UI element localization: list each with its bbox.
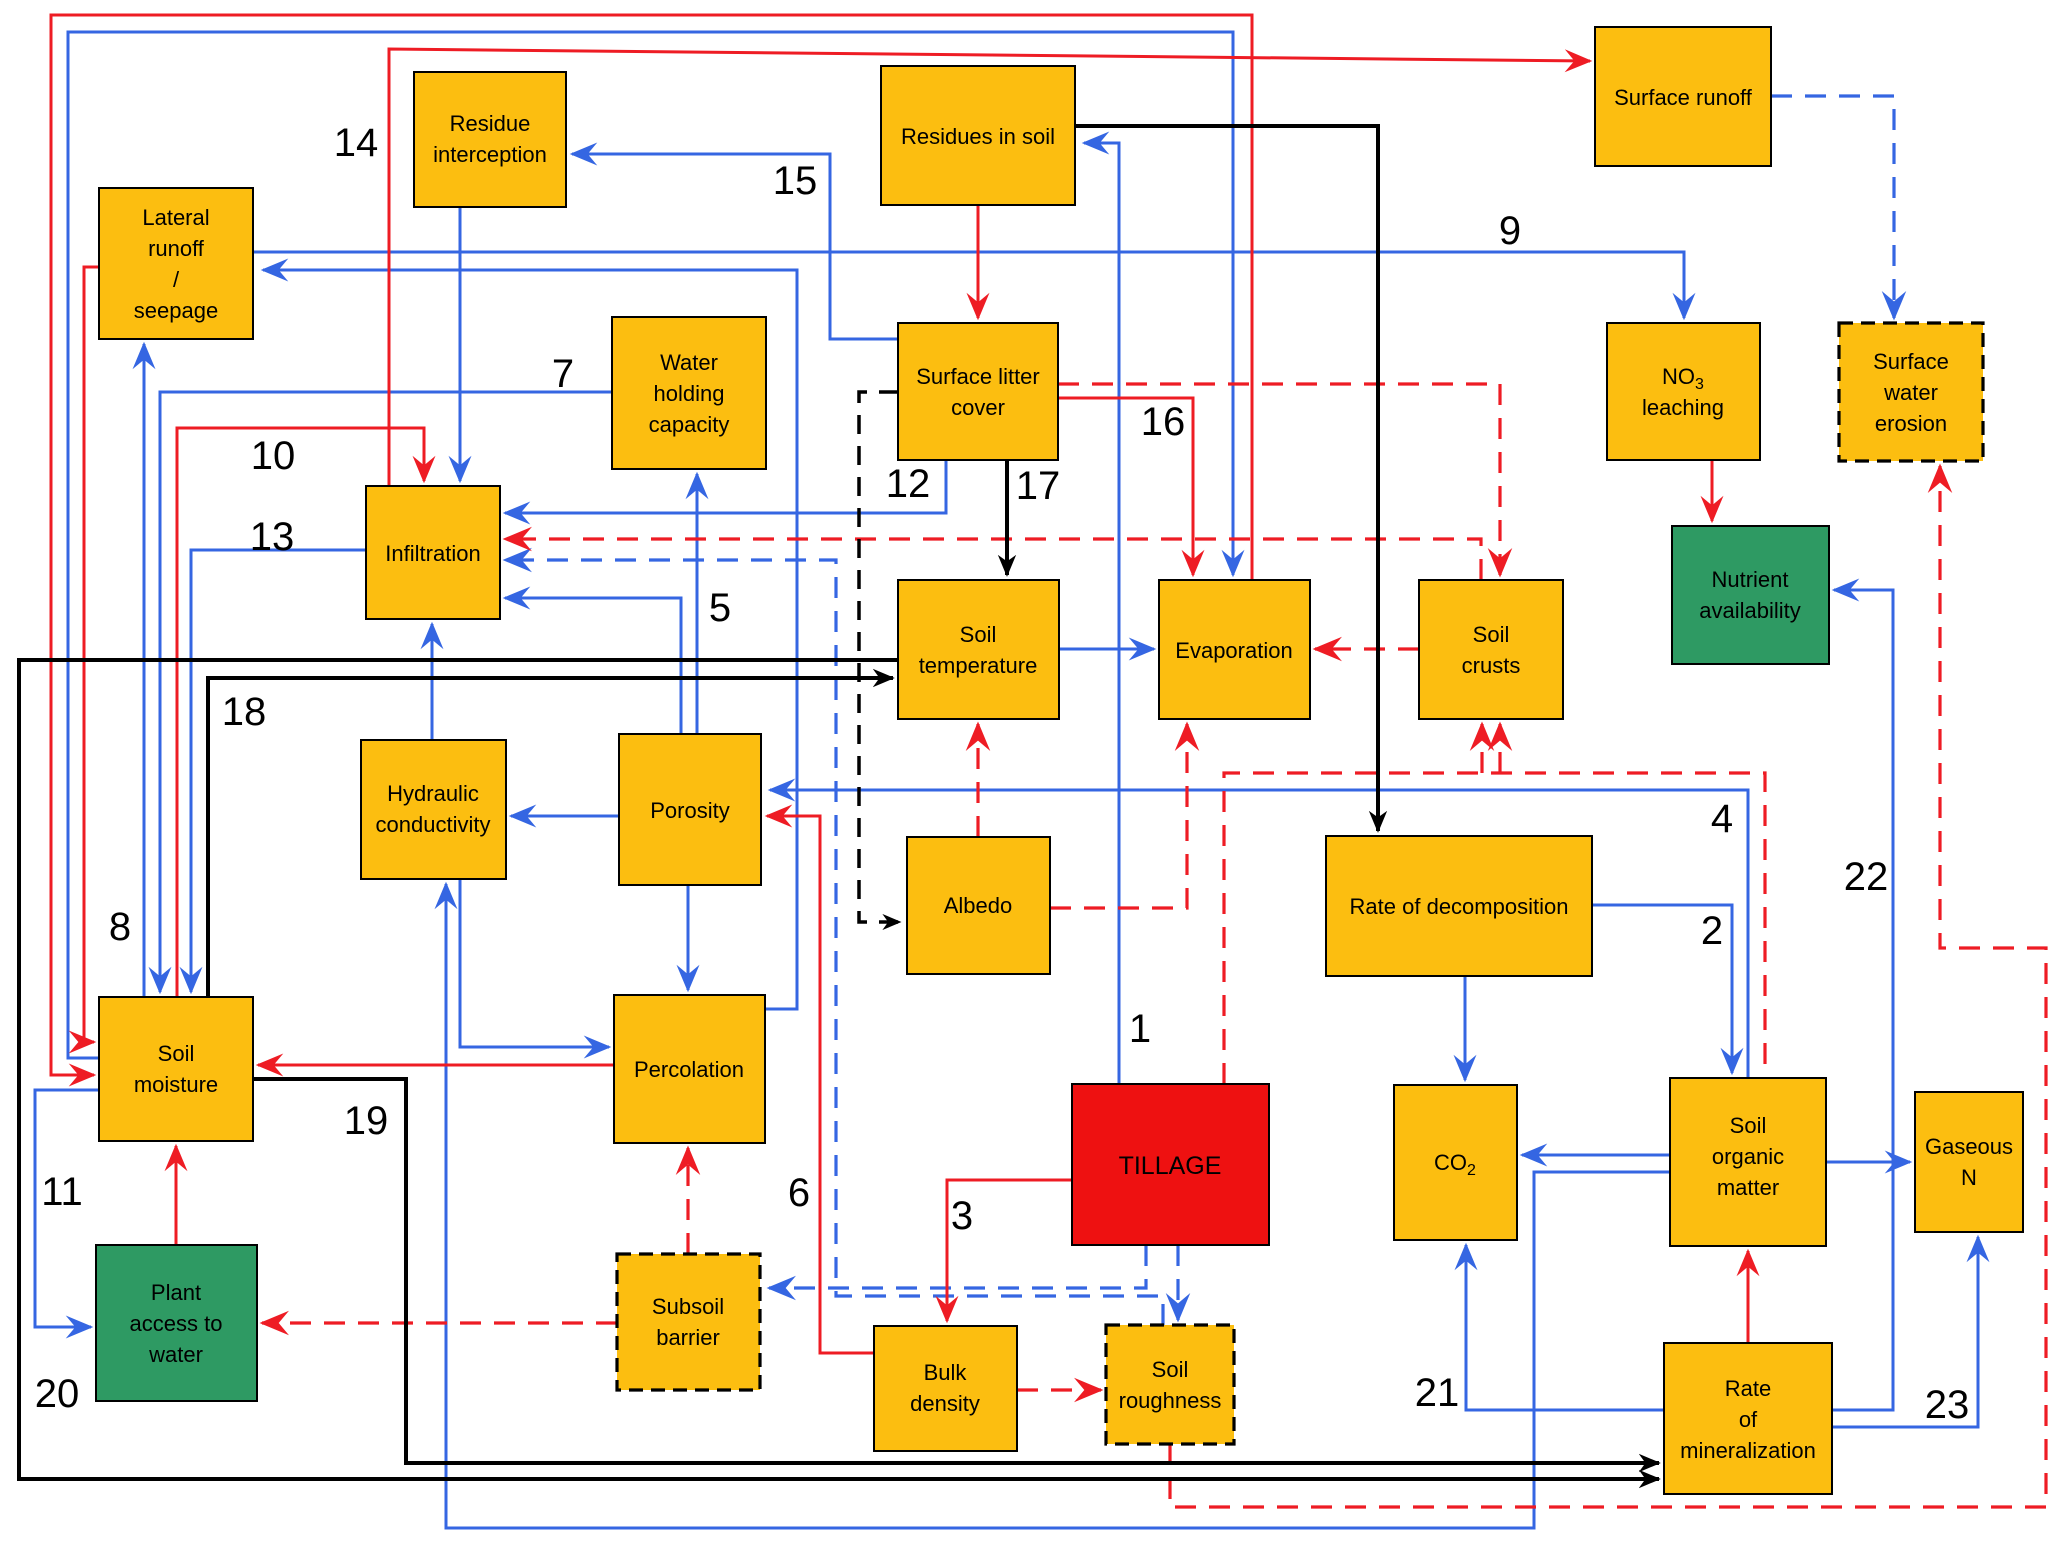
wire Lateral runoff to Soil moisture (red) [84,267,99,1042]
wire Surface runoff to Surface water erosion (blue dashed) [1771,96,1894,318]
wire 17 Surface litter cover to Soil temperature (black) [1005,460,1009,575]
wire Soil organic matter to Gaseous N (blue) [1826,1161,1910,1164]
wire Soil organic matter to CO2 (blue) [1522,1154,1670,1157]
svg-text:capacity: capacity [649,412,730,437]
wire Rate of mineralization to Soil organic matter (red) [1747,1251,1750,1343]
wire Soil roughness to Surface water erosion loop (red dashed) [1170,466,2046,1507]
wire 5 Porosity to Water holding capacity (blue) [696,474,699,734]
svg-text:14: 14 [334,121,379,165]
svg-text:19: 19 [344,1099,389,1143]
svg-text:Soil: Soil [1473,622,1510,647]
wire 4 Soil organic matter to Porosity (blue) [770,790,1748,1078]
wire NO3 leaching to Nutrient availability (red) [1711,460,1714,521]
box Surface litter cover [898,323,1058,460]
box Bulk density [874,1326,1017,1451]
svg-text:organic: organic [1712,1144,1784,1169]
box Water holding capacity [612,317,766,469]
svg-text:Hydraulic: Hydraulic [387,781,479,806]
wire Hydraulic conductivity to Infiltration (blue) [431,624,434,740]
wire 18 Soil moisture to Soil temperature (black) [208,678,893,997]
svg-text:crusts: crusts [1462,653,1521,678]
svg-text:11: 11 [41,1170,83,1214]
svg-text:12: 12 [886,462,931,506]
svg-text:7: 7 [552,352,574,396]
box Gaseous N [1915,1092,2023,1232]
svg-text:temperature: temperature [919,653,1038,678]
wire Albedo to Evaporation (red dashed) [1050,724,1187,908]
svg-text:matter: matter [1717,1175,1779,1200]
svg-text:Rate: Rate [1725,1376,1771,1401]
wire Albedo to Soil temperature (red dashed) [976,724,979,837]
wire Bulk density to Soil roughness (red dashed) [1017,1388,1101,1391]
wire TILLAGE loop to Soil organic matter (red dashed) [1224,773,1765,1084]
svg-text:5: 5 [709,586,731,630]
box Soil temperature [898,580,1059,719]
svg-text:Bulk: Bulk [924,1360,968,1385]
wire Porosity to Hydraulic conductivity (blue) [511,815,619,818]
box Soil crusts [1419,580,1563,719]
svg-text:water: water [1883,380,1938,405]
wire 16 Surface litter cover to Evaporation (red) [1058,398,1193,575]
svg-text:availability: availability [1699,598,1801,623]
svg-text:/: / [173,267,180,292]
wire Soil crusts to Infiltration (red dashed) [505,539,1481,580]
svg-text:moisture: moisture [134,1072,218,1097]
svg-text:Porosity: Porosity [650,798,729,823]
box Surface water erosion (dashed) [1839,323,1983,461]
svg-text:holding: holding [654,381,725,406]
svg-text:13: 13 [250,515,295,559]
wire 13 Infiltration to Soil moisture (blue) [191,550,366,992]
box TILLAGE (red) [1072,1084,1269,1245]
wire Hydraulic conductivity to Percolation (blue) [460,879,609,1047]
svg-text:4: 4 [1711,797,1733,841]
svg-text:21: 21 [1415,1371,1460,1415]
svg-text:Plant: Plant [151,1280,201,1305]
svg-text:Surface litter: Surface litter [916,364,1040,389]
svg-text:1: 1 [1129,1007,1151,1051]
wire Percolation to Soil moisture (red) [258,1064,614,1067]
box Residue interception [414,72,566,207]
svg-text:Water: Water [660,350,718,375]
box Percolation [614,995,765,1143]
wire 11 Soil moisture to Plant access to water (blue) [35,1090,99,1327]
box Surface runoff [1595,27,1771,166]
svg-text:23: 23 [1925,1383,1970,1427]
svg-text:10: 10 [251,434,296,478]
svg-text:Soil: Soil [1730,1113,1767,1138]
wire Residues in soil to Surface litter cover (red) [977,205,980,318]
box Soil organic matter [1670,1078,1826,1246]
svg-text:cover: cover [951,395,1005,420]
box Residues in soil [881,66,1075,205]
wire Residue interception to Infiltration (blue) [459,207,462,481]
box CO2 [1394,1085,1517,1240]
box Rate of mineralization [1664,1343,1832,1494]
svg-text:seepage: seepage [134,298,218,323]
box Albedo [907,837,1050,974]
wire 6 Bulk density to Porosity (red) [767,816,874,1353]
svg-text:6: 6 [788,1171,810,1215]
wire 19 Soil moisture to Rate of mineralization (black) [253,1079,1659,1463]
svg-text:leaching: leaching [1642,395,1724,420]
svg-text:density: density [910,1391,980,1416]
svg-text:16: 16 [1141,400,1186,444]
wire Evaporation to Soil moisture top loop (red) [51,15,1252,1075]
wire 7 Water holding capacity to Soil moisture (blue) [160,392,612,992]
svg-text:Surface: Surface [1873,349,1949,374]
wire Soil organic matter to Hydraulic conductivity bottom loop (blue) [446,884,1670,1528]
wire 20 Soil temperature to Rate of mineralization (black) [19,660,1659,1479]
wire Porosity to Infiltration (blue) [505,598,681,734]
box Evaporation [1159,580,1310,719]
box Porosity [619,734,761,885]
svg-text:Residues in soil: Residues in soil [901,124,1055,149]
box Soil moisture [99,997,253,1141]
svg-text:runoff: runoff [148,236,205,261]
box Lateral runoff / seepage [99,188,253,339]
wire TILLAGE to Subsoil barrier (blue dashed) [769,1245,1146,1288]
wire 2 Rate of decomposition to Soil organic matter (blue) [1592,905,1732,1073]
svg-text:Lateral: Lateral [142,205,209,230]
svg-text:access to: access to [130,1311,223,1336]
wire Subsoil barrier to Percolation (red dashed) [686,1148,689,1254]
svg-text:roughness: roughness [1119,1388,1222,1413]
svg-text:8: 8 [109,905,131,949]
svg-text:Surface runoff: Surface runoff [1614,85,1753,110]
wire Porosity to Percolation (blue) [687,885,690,990]
wire Soil moisture to Evaporation top loop (blue) [68,32,1233,1058]
wire 15 Surface litter cover to Residue interception (blue) [572,154,898,339]
svg-text:Percolation: Percolation [634,1057,744,1082]
wire Soil crusts to Evaporation (red dashed) [1315,647,1419,650]
svg-text:2: 2 [1701,909,1723,953]
box Rate of decomposition [1326,836,1592,976]
wire 9 Lateral runoff to NO3 leaching (blue) [253,252,1684,318]
svg-text:TILLAGE: TILLAGE [1119,1152,1222,1180]
svg-text:erosion: erosion [1875,411,1947,436]
svg-text:water: water [148,1342,203,1367]
wire 1 TILLAGE to Residues in soil (blue) [1084,143,1119,1084]
wire 21 Rate of mineralization to CO2 (blue) [1466,1245,1664,1410]
svg-text:18: 18 [222,690,267,734]
wire Percolation to Lateral runoff (blue) [263,270,797,1009]
wire TILLAGE loop branch to Soil crusts right (red dashed) [1498,724,1501,773]
svg-text:Gaseous: Gaseous [1925,1134,2013,1159]
svg-text:conductivity: conductivity [376,812,491,837]
wire 10 Soil moisture to Infiltration (red) [177,428,424,997]
svg-text:Nutrient: Nutrient [1711,567,1788,592]
svg-text:Rate of decomposition: Rate of decomposition [1350,894,1569,919]
svg-text:22: 22 [1844,855,1889,899]
box Soil roughness (dashed) [1106,1325,1234,1444]
svg-text:barrier: barrier [656,1325,720,1350]
svg-text:Soil: Soil [158,1041,195,1066]
svg-text:17: 17 [1016,464,1061,508]
wire Surface litter cover to Albedo (black dashed) [859,392,900,922]
wire 8 Soil moisture to Lateral runoff (blue) [143,344,146,997]
svg-text:Subsoil: Subsoil [652,1294,724,1319]
svg-text:3: 3 [951,1194,973,1238]
box NO3 leaching [1607,323,1760,460]
svg-text:interception: interception [433,142,547,167]
svg-text:Albedo: Albedo [944,893,1013,918]
svg-text:Infiltration: Infiltration [385,541,480,566]
wire 23 Rate of mineralization to Gaseous N (blue) [1832,1237,1978,1427]
svg-text:Soil: Soil [960,622,997,647]
wire Soil roughness to Infiltration (blue dashed) [505,560,1163,1325]
wire Rate of decomposition to CO2 (blue) [1464,976,1467,1080]
wire 22 Rate of mineralization to Nutrient availability (blue) [1832,590,1893,1410]
svg-text:Evaporation: Evaporation [1175,638,1292,663]
box Nutrient availability (green) [1672,526,1829,664]
svg-text:9: 9 [1499,209,1521,253]
svg-text:Soil: Soil [1152,1357,1189,1382]
box Infiltration [366,486,500,619]
wire Plant access to water to Soil moisture (red) [175,1146,178,1245]
svg-text:Residue: Residue [450,111,531,136]
wire Surface litter cover to Soil crusts (red dashed) [1058,384,1500,575]
svg-text:mineralization: mineralization [1680,1438,1816,1463]
svg-text:N: N [1961,1165,1977,1190]
wire 14 Infiltration to Surface runoff (red) [389,49,1590,486]
svg-text:15: 15 [773,159,818,203]
box Subsoil barrier (dashed) [617,1254,760,1390]
wire 3 TILLAGE to Bulk density (red) [947,1180,1072,1321]
svg-text:20: 20 [35,1372,80,1416]
wire TILLAGE to Soil roughness (blue dashed) [1176,1245,1179,1320]
wire Residues in soil to Rate of decomposition (black) [1075,126,1378,831]
wire 12 Surface litter cover to Infiltration (blue) [505,460,946,513]
svg-text:of: of [1739,1407,1758,1432]
wire TILLAGE loop branch to Soil crusts left (red dashed) [1480,724,1483,773]
wire Soil temperature to Evaporation (blue) [1059,648,1154,651]
box Hydraulic conductivity [361,740,506,879]
wire Subsoil barrier to Plant access to water (red dashed) [262,1321,617,1324]
box Plant access to water (green) [96,1245,257,1401]
